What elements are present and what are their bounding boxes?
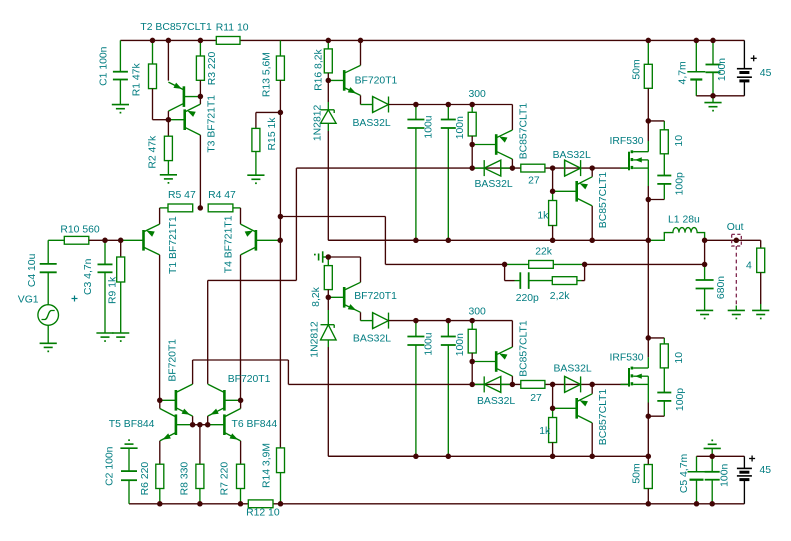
svg-text:50m: 50m [632, 59, 643, 79]
resistor R-27-2 [521, 381, 545, 389]
transistor T3 [168, 96, 200, 207]
svg-text:4: 4 [746, 260, 752, 271]
resistor R10 [48, 236, 121, 244]
mosfet IRF530 upper [621, 121, 649, 200]
svg-text:8,2k: 8,2k [311, 286, 322, 306]
zener D-1N2812-2 [321, 297, 416, 456]
svg-text:1N2812: 1N2812 [310, 321, 321, 358]
capacitor C3 [98, 240, 113, 333]
svg-text:L1 28u: L1 28u [668, 214, 700, 225]
svg-text:45: 45 [760, 68, 772, 79]
label T2 BC857CLT1 [140, 22, 212, 33]
label BAS32L D5 [477, 396, 515, 407]
svg-text:T6 BF844: T6 BF844 [232, 419, 278, 430]
resistor R14 [277, 448, 285, 504]
label Out [727, 222, 744, 233]
svg-text:300: 300 [469, 89, 487, 100]
svg-text:BC857CLT1: BC857CLT1 [518, 103, 529, 160]
svg-text:R14 3,9M: R14 3,9M [262, 443, 273, 488]
label T5 BF844 [109, 419, 155, 430]
label 300 lower [469, 306, 487, 317]
label BC857CLT1 n1 [518, 103, 529, 160]
svg-text:IRF530: IRF530 [610, 136, 644, 147]
svg-text:100p: 100p [675, 172, 686, 195]
ground supply top [704, 96, 721, 112]
svg-text:T5 BF844: T5 BF844 [109, 419, 155, 430]
svg-text:R15 1k: R15 1k [267, 117, 278, 151]
transistor Q-BC857-1 [472, 105, 512, 169]
resistor R-1k-1 [549, 168, 557, 240]
label IRF530 lower [610, 353, 644, 364]
svg-text:50m: 50m [631, 463, 642, 483]
svg-text:100u: 100u [424, 115, 435, 138]
label 100u upper [424, 115, 435, 138]
transistor T2 [168, 40, 200, 119]
label R3 220 [207, 52, 218, 86]
transistor Q-BC857-4 [553, 384, 593, 456]
wire stair lower [193, 360, 289, 384]
svg-text:R12 10: R12 10 [246, 508, 280, 519]
diode BAS32L D4 [373, 313, 416, 329]
svg-text:T4 BF721T1: T4 BF721T1 [223, 215, 234, 273]
label plus bottom [749, 456, 755, 462]
svg-text:BC857CLT1: BC857CLT1 [598, 389, 609, 446]
label BAS32L D1 [353, 118, 391, 129]
svg-text:BAS32L: BAS32L [553, 150, 591, 161]
svg-text:R3 220: R3 220 [207, 52, 218, 86]
ground R4ohm [752, 310, 769, 319]
label C4 10u [27, 253, 38, 287]
capacitor C-220p [505, 264, 529, 289]
probe Out [732, 234, 742, 310]
svg-text:220p: 220p [516, 293, 539, 304]
resistor R-8,2k-2 [324, 257, 332, 297]
svg-text:BC857CLT1: BC857CLT1 [518, 320, 529, 377]
label T6 BF844 [232, 419, 278, 430]
label 8,2k lower [311, 286, 322, 306]
wire base tie [193, 425, 208, 465]
label 1k upper [537, 211, 549, 222]
source VG1 [38, 305, 59, 344]
label R12 10 [246, 508, 280, 519]
label 1k lower [539, 426, 551, 437]
svg-text:10: 10 [674, 352, 685, 364]
ground R9 [112, 333, 129, 342]
mosfet IRF530 lower [621, 338, 649, 416]
diode BAS32L D2 [472, 160, 512, 176]
svg-text:100n: 100n [455, 333, 466, 356]
svg-text:4,7m: 4,7m [678, 61, 689, 84]
transistor Q-BC857-3 [472, 321, 512, 385]
label 27 upper [528, 176, 540, 187]
label R14 3,9M [262, 443, 273, 488]
label R9 1k [107, 276, 118, 304]
label BC857CLT1 n2 [598, 172, 609, 229]
resistor R11 [216, 37, 240, 45]
label 100n top-right [717, 58, 728, 81]
zener D-1N2812-1 [321, 80, 416, 240]
label VG1 [18, 295, 39, 306]
label 100n bottom-right [720, 464, 731, 487]
svg-text:R10 560: R10 560 [60, 224, 100, 235]
label VG1 plus [72, 296, 78, 302]
wire top supply bottom [696, 95, 744, 97]
svg-text:R6 220: R6 220 [140, 462, 151, 496]
svg-text:100n: 100n [720, 464, 731, 487]
resistor R-27-1 [521, 164, 545, 172]
svg-text:C4 10u: C4 10u [27, 253, 38, 287]
label R15 1k [267, 117, 278, 151]
label 100u lower [424, 332, 435, 355]
svg-text:BC857CLT1: BC857CLT1 [598, 172, 609, 229]
svg-text:VG1: VG1 [18, 295, 39, 306]
label L1 28u [668, 214, 700, 225]
label R7 220 [220, 462, 231, 496]
wire mid rail 2 [328, 455, 648, 457]
label C2 100n [105, 446, 116, 486]
svg-text:680n: 680n [716, 276, 727, 299]
capacitor C-100n-top [706, 40, 721, 95]
label BAS32L D3 [553, 150, 591, 161]
wire half-bridge mid [647, 200, 649, 338]
transistor Q-BC857-2 [553, 168, 593, 240]
inductor L1 [648, 228, 704, 241]
wire base1 drop [471, 145, 473, 169]
label BF720T1 left [168, 339, 179, 382]
transistor Q-BF720T1-3 [160, 360, 193, 425]
wire BF720-4 collector [207, 280, 209, 384]
label 100p upper [675, 172, 686, 195]
wire bottom supply top [697, 455, 745, 457]
svg-text:R5 47: R5 47 [168, 190, 196, 201]
label BF720T1 right [228, 374, 271, 385]
svg-text:2,2k: 2,2k [550, 291, 570, 302]
wire source to rail2 [647, 416, 649, 456]
svg-text:300: 300 [469, 306, 487, 317]
label plus top [751, 55, 757, 61]
wire row1 [296, 168, 629, 280]
resistor R5 [160, 204, 193, 212]
svg-text:R2 47k: R2 47k [148, 135, 159, 169]
capacitor C1 [113, 40, 128, 104]
label C1 100n [99, 46, 110, 86]
label 220p [516, 293, 539, 304]
resistor R9 [117, 240, 125, 333]
capacitor C-100u-2 [407, 321, 424, 457]
svg-text:22k: 22k [535, 247, 553, 258]
resistor R-1k-2 [549, 384, 557, 456]
resistor R-4 [757, 240, 765, 310]
label R13 5,6M [262, 52, 273, 97]
label R16 8,2k [313, 49, 324, 91]
label 27 lower [530, 393, 542, 404]
capacitor C-680n [696, 264, 714, 310]
wire feedback to output [585, 263, 705, 265]
svg-text:T2 BC857CLT1: T2 BC857CLT1 [140, 22, 212, 33]
capacitor C-100p-2 [648, 368, 671, 416]
svg-text:R7 220: R7 220 [220, 462, 231, 496]
transistor T5 [160, 400, 193, 464]
svg-text:R9 1k: R9 1k [107, 276, 118, 304]
svg-text:100n: 100n [455, 116, 466, 139]
svg-text:BAS32L: BAS32L [353, 334, 391, 345]
label BAS32L D6 [554, 364, 592, 375]
label R1 47k [132, 63, 143, 97]
transistor Q-BF720T1-4 [208, 384, 241, 425]
svg-text:C2 100n: C2 100n [105, 446, 116, 486]
label R2 47k [148, 135, 159, 169]
ground R15 [247, 175, 264, 184]
wire gate link upper [208, 279, 297, 281]
svg-text:1k: 1k [537, 211, 549, 222]
transistor T1 [121, 208, 160, 400]
label BF720T1 mid [354, 291, 397, 302]
wire output node [705, 240, 761, 264]
label 100p lower [675, 388, 686, 411]
ground supply bottom [704, 440, 721, 457]
ground VG1 [40, 343, 57, 352]
label R5 47 [168, 190, 196, 201]
label 45 bottom [760, 465, 772, 476]
resistor R-300-2 [468, 321, 476, 362]
label C3 4,7n [83, 258, 94, 295]
resistor R7 [237, 464, 245, 504]
battery B-45-top [737, 40, 752, 95]
label R4 47 [208, 190, 236, 201]
resistor R-10-1 [648, 121, 668, 154]
wire feedback stair [280, 217, 504, 265]
resistor R-2,2k [529, 264, 585, 284]
svg-text:BF720T1: BF720T1 [355, 76, 398, 87]
label 10 upper [674, 135, 685, 147]
capacitor C-100n-b [441, 321, 456, 457]
wire top +45V rail [120, 39, 744, 41]
wire rail1 caps [416, 104, 513, 106]
transistor T6 [208, 400, 241, 464]
label IRF530 upper [610, 136, 644, 147]
label T4 BF721T1 [223, 215, 234, 273]
svg-text:C3 4,7n: C3 4,7n [83, 258, 94, 295]
ground C3 [96, 333, 113, 342]
svg-text:1k: 1k [539, 426, 551, 437]
ground C1 [112, 105, 129, 114]
diode BAS32L D5 [472, 376, 512, 392]
capacitor C5 [688, 456, 706, 504]
svg-text:R16 8,2k: R16 8,2k [313, 49, 324, 91]
svg-text:R1 47k: R1 47k [132, 63, 143, 97]
svg-text:R4 47: R4 47 [208, 190, 236, 201]
resistor R13 [276, 40, 284, 448]
diode BAS32L D3 [565, 160, 581, 176]
label 50m upper [632, 59, 643, 79]
resistor R4 [208, 204, 240, 212]
svg-text:C5 4,7m: C5 4,7m [679, 454, 690, 493]
ground R2 [160, 175, 177, 184]
resistor R6 [156, 464, 164, 504]
svg-text:100p: 100p [675, 388, 686, 411]
resistor R2 [164, 120, 172, 175]
resistor R1 [149, 40, 169, 119]
wire base2 drop [471, 362, 473, 385]
transistor Q-BF720T1-1 [328, 40, 372, 104]
label R8 330 [179, 462, 190, 496]
label 1N2812 lower [310, 321, 321, 358]
label R6 220 [140, 462, 151, 496]
svg-text:45: 45 [760, 465, 772, 476]
resistor R16 [324, 40, 332, 80]
resistor R-50m-1 [644, 40, 652, 121]
resistor R-10-2 [648, 338, 668, 368]
svg-text:100n: 100n [717, 58, 728, 81]
svg-text:BAS32L: BAS32L [353, 118, 391, 129]
svg-text:10: 10 [674, 135, 685, 147]
label T1 BF721T1 [168, 216, 179, 274]
label 100n a [455, 116, 466, 139]
label BC857CLT1 n4 [598, 389, 609, 446]
diode BAS32L D6 [565, 376, 581, 392]
label BF720T1 upper [355, 76, 398, 87]
resistor R-50m-2 [644, 456, 652, 504]
capacitor C-100u-1 [407, 105, 424, 241]
svg-text:Out: Out [727, 222, 744, 233]
ground probe [728, 310, 745, 319]
svg-text:100u: 100u [424, 332, 435, 355]
wire rail2 caps [416, 320, 513, 322]
svg-text:R13 5,6M: R13 5,6M [262, 52, 273, 97]
svg-text:BF720T1: BF720T1 [228, 374, 271, 385]
capacitor C-100n-a [441, 105, 456, 241]
svg-text:R8 330: R8 330 [179, 462, 190, 496]
svg-text:BF720T1: BF720T1 [354, 291, 397, 302]
label 4 [746, 260, 752, 271]
label 45 top [760, 68, 772, 79]
svg-text:27: 27 [528, 176, 540, 187]
svg-text:27: 27 [530, 393, 542, 404]
svg-text:BF720T1: BF720T1 [168, 339, 179, 382]
svg-text:1N2812: 1N2812 [313, 104, 324, 141]
ground 680n [696, 310, 713, 319]
diode BAS32L D1 [373, 97, 416, 113]
label 1N2812 upper [313, 104, 324, 141]
label 2,2k [550, 291, 570, 302]
capacitor C2 [120, 439, 137, 504]
label BC857CLT1 n3 [518, 320, 529, 377]
svg-text:IRF530: IRF530 [610, 353, 644, 364]
resistor R-300-1 [468, 105, 476, 145]
label 100n b [455, 333, 466, 356]
label BAS32L D4 [353, 334, 391, 345]
svg-text:C1 100n: C1 100n [99, 46, 110, 86]
capacitor C4 [40, 240, 57, 304]
battery B-45-bottom [737, 456, 752, 504]
ground 8,2k [314, 251, 328, 262]
svg-text:T1 BF721T1: T1 BF721T1 [168, 216, 179, 274]
capacitor C-4,7m-top [687, 40, 705, 95]
svg-text:BAS32L: BAS32L [475, 179, 513, 190]
label C5 4,7m [679, 454, 690, 493]
label 22k [535, 247, 553, 258]
resistor R-22k [505, 261, 585, 269]
label T3 BF721T1 [206, 95, 217, 153]
label 4,7m top [678, 61, 689, 84]
transistor Q-BF720T1-2 [328, 257, 372, 321]
label R11 10 [216, 23, 249, 34]
capacitor C-100n-bot [705, 456, 720, 504]
svg-text:R11 10: R11 10 [216, 23, 249, 34]
wire row2 [288, 383, 629, 385]
wire bottom rail [129, 503, 744, 505]
capacitor C-100p-1 [648, 154, 671, 200]
resistor R12 [248, 500, 273, 508]
label 50m lower [631, 463, 642, 483]
label R10 560 [60, 224, 100, 235]
wire mid rail 1 [328, 239, 648, 241]
resistor R8 [196, 464, 204, 504]
svg-text:T3 BF721T1: T3 BF721T1 [206, 95, 217, 153]
resistor R15 [252, 112, 281, 175]
label 300 upper [469, 89, 487, 100]
svg-text:BAS32L: BAS32L [477, 396, 515, 407]
label BAS32L D2 [475, 179, 513, 190]
label 10 lower [674, 352, 685, 364]
resistor R3 [196, 40, 204, 96]
label 680n [716, 276, 727, 299]
svg-text:BAS32L: BAS32L [554, 364, 592, 375]
transistor T4 [241, 208, 281, 400]
